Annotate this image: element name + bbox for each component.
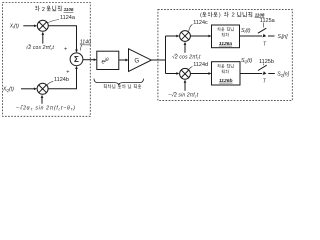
svg-text:−√2αT sin 2π(fct−θT): −√2αT sin 2π(fct−θT) — [16, 105, 76, 112]
sampler 1125a — [258, 28, 275, 37]
receiver box 1108 (dashed) — [158, 10, 292, 101]
LO input sqrt2 cos 2pi fc t — [26, 32, 55, 51]
svg-text:√2 cos 2πfct: √2 cos 2πfct — [26, 44, 55, 51]
wire phase block to amp — [119, 59, 129, 62]
wire mixer 1124a to summer — [48, 26, 78, 53]
sampler 1125b — [258, 65, 275, 75]
svg-text:1125b: 1125b — [259, 59, 274, 65]
svg-text:1124c: 1124c — [193, 20, 208, 26]
wire XI to mixer — [23, 24, 37, 27]
wire branch to mixer 1124d — [166, 72, 180, 75]
wire LPF 1126a to sampler — [240, 35, 263, 37]
svg-text:SI(t): SI(t) — [241, 28, 251, 34]
wire mixer 1124c to LPF 1126a — [190, 35, 211, 38]
svg-text:1124d: 1124d — [193, 62, 208, 68]
label 1124b — [47, 77, 69, 85]
svg-text:1126a: 1126a — [219, 41, 233, 47]
svg-text:SI[n]: SI[n] — [278, 34, 289, 40]
svg-text:+: + — [64, 46, 67, 52]
wire mixer 1124b to summer — [48, 66, 78, 89]
caption: unknown gain and phase (Korean) — [104, 84, 141, 88]
wire summer to phase block — [83, 58, 97, 61]
svg-text:Σ: Σ — [74, 55, 79, 64]
wire LPF 1126b to sampler — [240, 73, 262, 75]
mixer 1124a — [37, 20, 48, 31]
LPF block 1126a — [212, 25, 240, 48]
LPF block 1126b — [212, 62, 241, 85]
phase block e^jtheta — [97, 51, 119, 69]
mixer 1124c — [180, 31, 191, 42]
LO sqrt2 cos for 1124c — [172, 42, 201, 61]
label 1125b — [259, 59, 274, 65]
svg-text:1140: 1140 — [80, 40, 91, 46]
svg-text:1108: 1108 — [255, 12, 265, 17]
branch wire vertical — [165, 36, 167, 74]
svg-text:(: ( — [200, 13, 202, 19]
wire XQ to mixer — [21, 87, 37, 90]
label 1125a — [260, 18, 276, 28]
wire mixer 1124d to LPF 1126b — [190, 72, 211, 75]
title: (calibration) second receiver (Korean) — [200, 12, 252, 19]
summer 1140 — [70, 53, 83, 66]
svg-text:2: 2 — [232, 13, 235, 19]
svg-text:SQ[n]: SQ[n] — [277, 72, 289, 78]
amplifier G — [129, 49, 152, 72]
svg-text:−√2 sin 2πfct: −√2 sin 2πfct — [168, 92, 199, 99]
svg-text:+: + — [66, 70, 69, 76]
label 1124a — [48, 15, 76, 23]
svg-text:1124b: 1124b — [54, 77, 69, 83]
wire amp to receiver branch — [151, 59, 165, 61]
title: second transmitter (Korean) — [35, 6, 61, 13]
label 1124c — [189, 20, 208, 32]
svg-text:G: G — [134, 57, 139, 64]
svg-text:1126b: 1126b — [219, 78, 233, 84]
svg-text:2: 2 — [42, 7, 45, 13]
LO input -sqrt2 aT sin — [16, 95, 76, 112]
svg-text:1106: 1106 — [64, 7, 74, 12]
wire branch to mixer 1124c — [166, 35, 180, 38]
label 1140 — [80, 40, 91, 51]
transmitter box 1106 (dashed) — [3, 3, 91, 117]
label 1124d — [189, 62, 208, 70]
mixer 1124b — [37, 83, 48, 94]
svg-text:√2 cos 2πfct: √2 cos 2πfct — [172, 54, 201, 61]
svg-text:1124a: 1124a — [60, 15, 76, 21]
svg-text:): ) — [219, 13, 221, 19]
svg-text:XI(t): XI(t) — [9, 24, 19, 30]
LO -sqrt2 sin for 1124d — [168, 80, 199, 99]
underbrace unknown gain and phase — [94, 79, 144, 86]
mixer 1124d — [180, 68, 191, 79]
svg-text:1125a: 1125a — [260, 18, 276, 24]
svg-text:SQ(t): SQ(t) — [241, 58, 253, 64]
